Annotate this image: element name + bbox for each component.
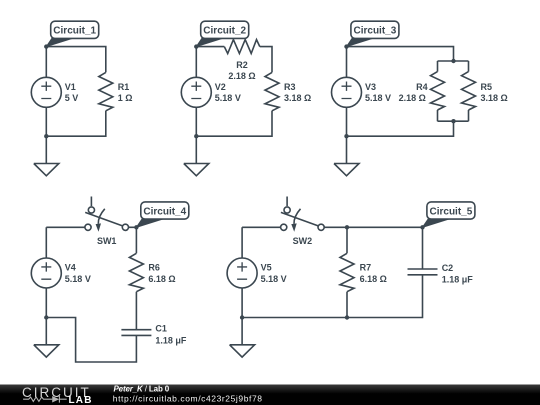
svg-text:R6: R6 (148, 263, 160, 273)
svg-text:Peter_K / Lab 0: Peter_K / Lab 0 (114, 385, 170, 394)
svg-text:Circuit_2: Circuit_2 (203, 26, 246, 37)
svg-text:5.18 V: 5.18 V (365, 93, 391, 103)
svg-text:V5: V5 (261, 263, 272, 273)
svg-text:Circuit_3: Circuit_3 (354, 26, 397, 37)
svg-text:6.18 Ω: 6.18 Ω (148, 274, 175, 284)
svg-text:V2: V2 (215, 82, 226, 92)
svg-text:V4: V4 (65, 263, 76, 273)
svg-text:SW1: SW1 (97, 236, 117, 246)
svg-text:R7: R7 (360, 263, 372, 273)
svg-text:R4: R4 (416, 82, 428, 92)
svg-text:C1: C1 (155, 324, 167, 334)
svg-text:R3: R3 (284, 82, 296, 92)
svg-text:5.18 V: 5.18 V (65, 274, 91, 284)
svg-text:6.18 Ω: 6.18 Ω (360, 274, 387, 284)
svg-text:5.18 V: 5.18 V (215, 93, 241, 103)
svg-text:R5: R5 (481, 82, 493, 92)
svg-text:3.18 Ω: 3.18 Ω (481, 93, 508, 103)
svg-text:LAB: LAB (69, 395, 93, 405)
svg-text:2.18 Ω: 2.18 Ω (399, 93, 426, 103)
svg-text:Circuit_1: Circuit_1 (53, 26, 96, 37)
svg-text:R1: R1 (118, 82, 130, 92)
svg-text:SW2: SW2 (293, 236, 313, 246)
svg-text:1.18 μF: 1.18 μF (442, 275, 474, 285)
svg-text:1.18 μF: 1.18 μF (155, 335, 187, 345)
svg-text:1 Ω: 1 Ω (118, 93, 133, 103)
svg-text:Circuit_5: Circuit_5 (430, 206, 473, 217)
svg-text:3.18 Ω: 3.18 Ω (284, 93, 311, 103)
svg-text:Circuit_4: Circuit_4 (143, 206, 186, 217)
svg-text:5.18 V: 5.18 V (261, 274, 287, 284)
svg-text:2.18 Ω: 2.18 Ω (228, 71, 255, 81)
svg-text:C2: C2 (442, 263, 454, 273)
svg-text:V3: V3 (365, 82, 376, 92)
svg-text:V1: V1 (65, 82, 76, 92)
svg-text:R2: R2 (236, 60, 248, 70)
svg-text:5 V: 5 V (65, 93, 79, 103)
svg-text:http://circuitlab.com/c423r25j: http://circuitlab.com/c423r25j9bf78 (113, 393, 263, 403)
